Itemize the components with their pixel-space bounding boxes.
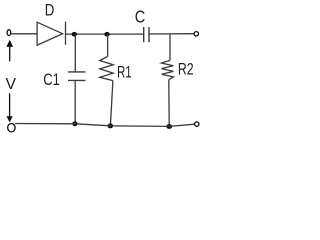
wire R1 top bbox=[107, 34, 109, 56]
node junction top C1 bbox=[72, 32, 77, 37]
output terminal (top-right) bbox=[194, 32, 198, 36]
node junction bottom R1 bbox=[108, 123, 114, 128]
wire C1 bottom bbox=[74, 80, 76, 123]
svg-text:C1: C1 bbox=[43, 70, 60, 89]
capacitor C1 bottom plate bbox=[68, 79, 86, 81]
node junction bottom C1 bbox=[72, 121, 77, 126]
diode D triangle bbox=[37, 22, 63, 45]
wire C1 top bbox=[74, 34, 76, 72]
svg-text:R2: R2 bbox=[178, 61, 194, 79]
wire R2 bottom bbox=[168, 80, 170, 127]
diode D cathode bar bbox=[65, 22, 67, 45]
svg-text:V: V bbox=[6, 76, 17, 93]
capacitor C left plate bbox=[143, 27, 145, 42]
wire input to diode bbox=[11, 33, 37, 35]
V arrow up shaft bbox=[9, 46, 11, 61]
ground terminal (bottom-left) bbox=[8, 124, 15, 132]
V arrow down head bbox=[7, 116, 13, 122]
node junction bottom R2 bbox=[166, 124, 172, 129]
wire C to output terminal bbox=[149, 33, 194, 35]
resistor R1 zigzag bbox=[100, 57, 113, 81]
capacitor C right plate bbox=[148, 27, 150, 42]
bottom rail wire bbox=[15, 124, 195, 127]
resistor R2 zigzag bbox=[161, 60, 173, 79]
input terminal (top-left) bbox=[7, 30, 11, 36]
node junction top R1 bbox=[104, 32, 109, 37]
svg-text:R1: R1 bbox=[117, 64, 132, 82]
V arrow down shaft bbox=[9, 93, 11, 117]
wire diode to capacitor C bbox=[66, 33, 144, 35]
svg-text:C: C bbox=[135, 7, 146, 27]
wire R2 top bbox=[169, 34, 171, 60]
svg-text:D: D bbox=[45, 2, 55, 20]
wire R1 bottom bbox=[110, 81, 113, 126]
output terminal (bottom-right) bbox=[195, 122, 199, 126]
capacitor C1 top plate bbox=[68, 71, 86, 73]
V arrow up head bbox=[6, 40, 13, 47]
